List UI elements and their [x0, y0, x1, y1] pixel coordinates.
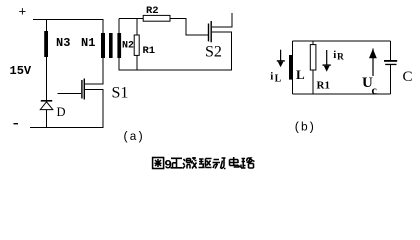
wire N1 to S1 drain — [102, 58, 104, 85]
wire N2 top — [118, 19, 120, 34]
svg-text:(b): (b) — [294, 121, 316, 135]
svg-text:9: 9 — [164, 157, 172, 172]
svg-text:L: L — [275, 74, 282, 85]
caption char 9 — [164, 157, 172, 172]
wire R1 bottom — [136, 55, 138, 70]
wire S1 gate — [57, 92, 81, 94]
svg-text:15V: 15V — [10, 64, 32, 78]
caption char tu — [153, 158, 164, 169]
inductor L — [289, 55, 293, 80]
wire N2 bottom — [118, 57, 120, 71]
wire S2 source horizontal — [212, 31, 232, 33]
winding N2 — [117, 33, 121, 58]
svg-text:+: + — [19, 5, 27, 20]
arrow iR — [323, 50, 331, 72]
svg-text:L: L — [296, 67, 305, 82]
svg-text:R2: R2 — [146, 5, 159, 17]
wire b right edge bottom (from capacitor) — [389, 65, 391, 94]
resistor R1 (b) — [310, 45, 316, 70]
wire R1b bottom — [312, 70, 314, 94]
winding N1 — [101, 33, 105, 58]
wire b left edge — [292, 41, 294, 94]
wire S2 drain up stub — [231, 13, 233, 27]
svg-text:C: C — [403, 69, 413, 85]
diode D — [40, 100, 53, 110]
transistor S1 — [81, 79, 85, 100]
svg-text:R: R — [337, 53, 344, 63]
caption char qu — [199, 159, 212, 168]
winding N3 — [44, 31, 48, 57]
svg-text:S1: S1 — [112, 84, 129, 101]
svg-text:N1: N1 — [81, 36, 95, 50]
wire S2 drain horizontal — [212, 26, 233, 28]
arrow iL — [277, 50, 285, 67]
caption char lu — [241, 158, 255, 168]
transformer core — [109, 33, 113, 58]
svg-text:N3: N3 — [56, 36, 70, 50]
caption char dian — [230, 157, 240, 167]
caption char ji — [183, 157, 197, 169]
svg-text:c: c — [372, 83, 378, 97]
wire b top — [293, 40, 391, 42]
caption char dong — [213, 158, 226, 169]
wire b right edge top (to capacitor) — [389, 41, 391, 60]
circuit b loop wires — [293, 41, 391, 94]
resistor R1 (a) — [134, 35, 139, 55]
wire S1 drain horizontal — [85, 83, 104, 85]
wire diode to bottom rail — [45, 110, 47, 128]
wire b bottom — [293, 93, 391, 95]
arrow UC — [369, 49, 377, 77]
wire N3 branch — [45, 20, 47, 32]
svg-text:D: D — [57, 105, 66, 119]
wire R1 top — [136, 19, 138, 35]
svg-text:S2: S2 — [205, 44, 222, 61]
svg-text:R1: R1 — [317, 80, 330, 92]
svg-text:i: i — [333, 49, 336, 61]
caption char zheng — [171, 158, 183, 168]
capacitor C — [384, 60, 397, 65]
caption: 图9正激驱动电路 (drawn strokes) — [153, 157, 255, 172]
label minus — [14, 123, 19, 124]
svg-text:R1: R1 — [143, 45, 156, 57]
transistor S2 — [208, 21, 212, 42]
wire R2 right to S2 gate — [170, 18, 187, 20]
wire top rail — [33, 19, 104, 21]
wire S2 source down — [231, 32, 233, 71]
wire S1 source to bottom rail — [102, 90, 104, 128]
svg-text:i: i — [270, 71, 273, 83]
svg-text:(a): (a) — [122, 130, 144, 144]
wire bottom rail — [30, 127, 104, 129]
wire secondary bottom rail — [119, 69, 232, 71]
wire R1b top — [312, 41, 314, 45]
svg-text:N2: N2 — [122, 41, 134, 52]
wire N3 to diode — [45, 57, 47, 101]
wire S1 source horizontal — [85, 89, 104, 91]
resistor R2 — [143, 15, 170, 21]
wire N1 drop — [102, 20, 104, 34]
